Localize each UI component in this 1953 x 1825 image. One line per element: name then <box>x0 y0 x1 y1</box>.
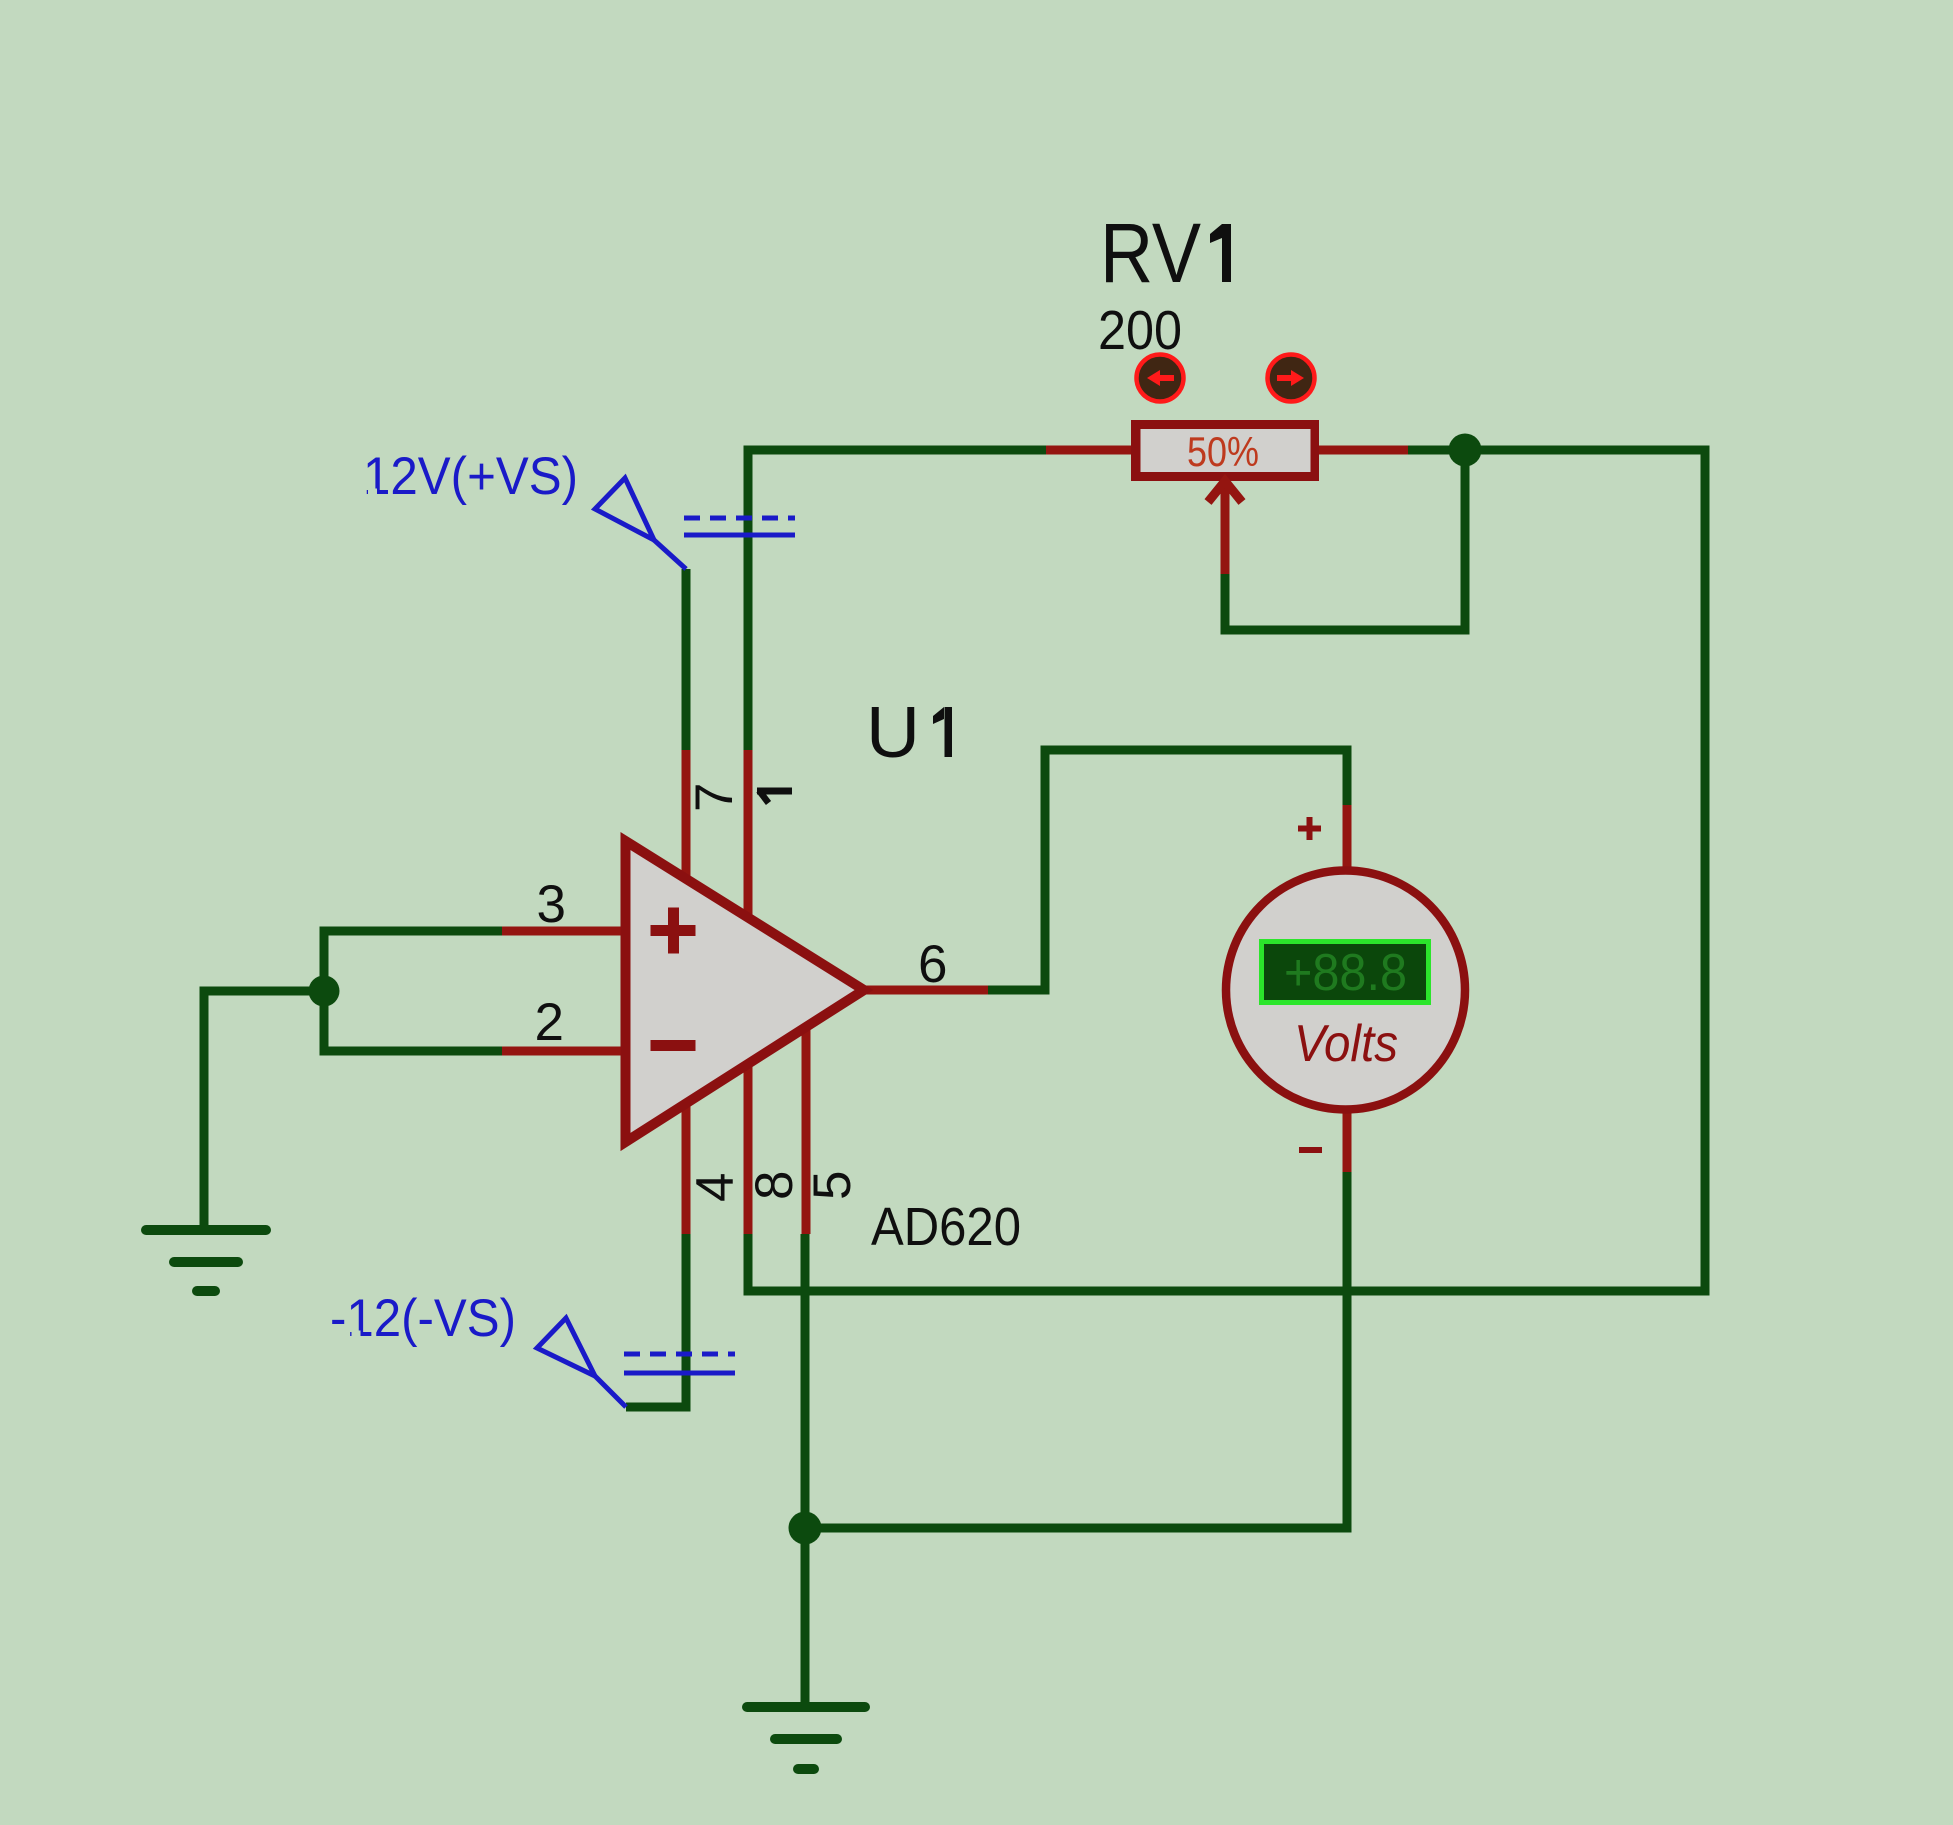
wire top rail to pin1 of U1 <box>748 450 1046 750</box>
voltmeter body <box>1226 871 1465 1110</box>
wire pin 5 down through junction to bottom ground <box>801 1234 810 1707</box>
pin number 1 <box>757 791 792 804</box>
wire pot right to right rail, bottom rail to pin 8 <box>748 450 1705 1291</box>
power terminal -VS <box>537 1318 735 1407</box>
pin stub voltmeter + <box>1343 805 1352 868</box>
svg-text:3: 3 <box>537 875 566 934</box>
svg-text:5: 5 <box>803 1171 862 1200</box>
wire input net pins 3-2 <box>324 931 502 1051</box>
svg-text:Volts: Volts <box>1294 1015 1398 1073</box>
svg-text:4: 4 <box>686 1173 745 1202</box>
pin stub U1 pin1 <box>744 750 753 917</box>
svg-text:-12(-VS): -12(-VS) <box>330 1289 516 1348</box>
svg-text:2: 2 <box>535 993 564 1052</box>
wire pin 6 to voltmeter + <box>988 750 1347 990</box>
junction node pot right <box>1449 434 1482 467</box>
voltmeter display <box>1262 942 1429 1003</box>
RV1 rotate button right <box>1268 355 1315 402</box>
ground (bottom) <box>747 1707 865 1769</box>
pin stub U1 pin3 <box>502 927 626 936</box>
svg-text:+88.8: +88.8 <box>1284 944 1407 1002</box>
pin stub U1 pin4 <box>682 1103 691 1234</box>
svg-text:12V(+VS): 12V(+VS) <box>363 447 578 506</box>
power terminal +VS <box>595 478 795 569</box>
wire +12V terminal to pin 7 <box>682 569 691 750</box>
wire RV1 wiper loop <box>1225 450 1465 630</box>
op-amp U1 body <box>626 841 865 1142</box>
pin stub U1 pin8 <box>744 1064 753 1234</box>
svg-text:8: 8 <box>745 1171 804 1200</box>
junction node ground rail <box>789 1512 822 1545</box>
junction node input <box>309 976 340 1007</box>
wire voltmeter - to ground rail <box>805 1172 1347 1528</box>
pin stub RV1 pin2 <box>1319 446 1408 455</box>
U1 plus marking <box>651 908 696 954</box>
pin stub U1 pin7 <box>682 750 691 879</box>
pin stub voltmeter - <box>1343 1112 1352 1172</box>
ground (left) <box>146 1230 266 1291</box>
pin stub RV1 wiper <box>1221 482 1230 574</box>
voltmeter minus mark <box>1299 1147 1322 1153</box>
svg-text:6: 6 <box>918 935 947 994</box>
svg-text:U: U <box>866 693 920 773</box>
pin stub U1 pin6 <box>864 986 988 995</box>
wire pin 4 to -12V terminal <box>626 1234 686 1407</box>
wire input net to left ground <box>204 991 324 1230</box>
svg-text:AD620: AD620 <box>871 1197 1021 1257</box>
svg-text:RV: RV <box>1100 206 1201 300</box>
U1 minus marking <box>651 1040 696 1051</box>
RV1 rotate button left <box>1137 355 1184 402</box>
voltmeter plus mark <box>1298 817 1321 840</box>
potentiometer RV1 body <box>1131 420 1319 481</box>
pin stub U1 pin5 <box>802 1027 811 1234</box>
pin stub RV1 pin1 <box>1046 446 1131 455</box>
svg-text:200: 200 <box>1098 299 1182 361</box>
RV1 wiper arrow <box>1208 481 1242 502</box>
svg-text:7: 7 <box>685 783 744 812</box>
svg-text:50%: 50% <box>1187 428 1259 475</box>
pin stub U1 pin2 <box>502 1047 626 1056</box>
